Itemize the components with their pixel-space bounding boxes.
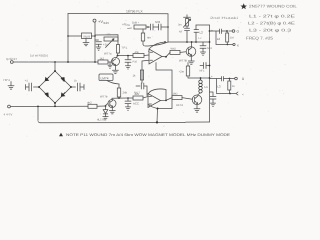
resistor R TPL vertical: [116, 45, 119, 53]
svg-text:NOTE P11 WOUND 7m A/4 6km WOW: NOTE P11 WOUND 7m A/4 6km WOW MAGNET MOD…: [66, 133, 231, 137]
svg-text:18796 FLX: 18796 FLX: [126, 9, 143, 13]
ground Q2 emitter: [109, 107, 115, 114]
svg-text:45k: 45k: [135, 51, 140, 54]
svg-text:2N5777 WOUND COIL: 2N5777 WOUND COIL: [249, 5, 297, 9]
svg-text:P10: P10: [133, 61, 138, 64]
svg-text:WT7b: WT7b: [100, 95, 108, 99]
wire bridge bottom: [54, 103, 56, 106]
capacitor C chain 1: [151, 24, 159, 30]
transistor Q3: [186, 47, 196, 57]
node rail dots: [54, 61, 96, 63]
svg-text:a: a: [211, 29, 213, 33]
svg-text:1k: 1k: [232, 85, 235, 88]
svg-text:HP o: HP o: [4, 78, 11, 82]
svg-text:ACC: ACC: [133, 102, 139, 106]
svg-text:L1: L1: [205, 85, 209, 89]
svg-text:UF74: UF74: [176, 103, 183, 107]
terminal input bottom: [8, 105, 11, 108]
wire lower rail: [10, 105, 88, 107]
resistor R 6k8: [88, 104, 97, 108]
wire top rail: [68, 13, 168, 15]
diode D2: [45, 93, 48, 97]
svg-text:4 4-7V: 4 4-7V: [4, 113, 13, 117]
resistor R rail 1k2: [98, 60, 108, 64]
capacitor C near Q4: [210, 92, 217, 106]
svg-text:L3: L3: [217, 85, 221, 89]
resistor R op1 input: [133, 54, 144, 58]
svg-text:N33: N33: [207, 47, 212, 50]
svg-text:1kB +: 1kB +: [132, 21, 140, 25]
svg-text:+2: +2: [25, 80, 29, 83]
svg-text:L3 - 20t φ 0.3: L3 - 20t φ 0.3: [249, 27, 292, 32]
wire loop stage coupling: [156, 63, 172, 123]
svg-text:24k: 24k: [123, 91, 128, 95]
svg-text:+2m: +2m: [179, 70, 185, 74]
terminal K upper: [228, 44, 233, 46]
wire vertical x168: [167, 14, 169, 42]
ground regulator: [83, 39, 89, 46]
note star header: [240, 3, 247, 9]
capacitor C out upper: [220, 29, 222, 34]
svg-text:1M: 1M: [230, 37, 234, 40]
svg-text:L2: L2: [217, 37, 221, 41]
capacitor C at Q2 collector: [125, 98, 131, 110]
svg-text:T.P.L: T.P.L: [121, 46, 127, 50]
ground Q4 emitter: [194, 105, 200, 113]
svg-text:4m: 4m: [147, 36, 152, 40]
capacitor C on rail mid: [200, 63, 210, 69]
svg-text:1k: 1k: [74, 80, 77, 83]
capacitor C fixed below trimmer: [185, 26, 190, 42]
svg-text:K: K: [237, 43, 239, 47]
label box LM741: [99, 74, 113, 81]
capacitor C 1u at regulator: [95, 40, 102, 50]
ground Q1 emitter: [112, 65, 118, 73]
ground Q3 emitter: [188, 56, 194, 65]
capacitor C out lower: [222, 77, 224, 82]
svg-text:2nd Hutaki: 2nd Hutaki: [210, 16, 239, 20]
svg-text:+V/12V: +V/12V: [98, 19, 109, 25]
svg-text:WT7a: WT7a: [104, 52, 112, 56]
wire rail to Q1 base: [108, 61, 111, 63]
bridge rectifier diamond: [39, 71, 71, 103]
wire +V drop: [94, 22, 96, 62]
resistor R 42k: [133, 96, 143, 100]
svg-text:L2: L2: [200, 31, 204, 35]
capacitor C chain 2 N33: [159, 24, 169, 30]
resistor R out upper: [226, 33, 229, 42]
terminal +V 12V: [93, 19, 96, 22]
wire op2 feedback: [148, 89, 166, 100]
wire op2 plus to ground rail: [148, 104, 157, 108]
wire right rail: [209, 25, 211, 122]
svg-text:+V/5V: +V/5V: [122, 23, 130, 28]
resistor R 2k2 vertical: [140, 70, 143, 80]
svg-text:L1 - 27t φ 0.2E: L1 - 27t φ 0.2E: [249, 13, 296, 18]
wire mid supply rail: [13, 61, 98, 63]
svg-text:LM74: LM74: [101, 76, 109, 80]
svg-text:WT7B: WT7B: [179, 59, 187, 63]
diode D1: [45, 77, 49, 81]
svg-text:G: G: [237, 30, 240, 34]
footnote marker: [59, 133, 63, 137]
svg-text:3m: 3m: [178, 24, 182, 27]
wire lower bottom out with arrow: [230, 92, 238, 95]
oscillator tank box: [196, 24, 210, 26]
svg-text:+: +: [211, 75, 213, 79]
svg-text:FREQ 7. #25: FREQ 7. #25: [246, 35, 274, 40]
svg-text:+1u: +1u: [103, 43, 108, 47]
wire lower rail cont: [97, 105, 106, 107]
svg-text:1k: 1k: [133, 74, 137, 78]
zener D5: [105, 105, 107, 107]
capacitor C coupling lower: [136, 83, 147, 96]
wire 5V feed to pot: [95, 35, 118, 45]
ground base stub: [108, 62, 112, 68]
output network upper: [209, 30, 211, 32]
resistor R op2 out: [172, 96, 182, 100]
svg-text:1M2: 1M2: [173, 92, 179, 95]
svg-text:42k: 42k: [135, 92, 140, 96]
transistor Q4: [192, 95, 202, 105]
trimmer capacitor: [184, 15, 191, 19]
svg-text:47k: 47k: [106, 32, 111, 36]
svg-text:<: <: [242, 92, 244, 96]
op-amp U1: [149, 49, 162, 64]
resistor R out lower: [228, 81, 231, 90]
resistor R decouple: [134, 25, 146, 29]
wire bottom ground rail: [40, 121, 210, 124]
capacitor C bridge right: [71, 83, 84, 91]
svg-text:å: å: [242, 77, 244, 81]
terminal input top: [10, 61, 13, 64]
diode D3: [61, 93, 65, 97]
svg-text:78L05: 78L05: [83, 35, 91, 38]
resistor R op1 out: [170, 50, 180, 54]
wire curve to node: [143, 41, 168, 46]
svg-text:4L17B: 4L17B: [97, 117, 105, 121]
scan speckle noise: [7, 2, 296, 140]
potentiometer RV 47k: [104, 37, 118, 41]
wire op1 plus input path: [142, 60, 149, 83]
wire left down corner: [38, 107, 40, 123]
terminal a lower: [230, 78, 235, 80]
op-amp U2: [148, 94, 161, 108]
svg-text:1-2: 1-2: [198, 37, 202, 40]
wire op1 feedback: [149, 42, 165, 52]
resistor R 2k4 vertical: [117, 88, 120, 97]
wire op1 output: [162, 52, 170, 56]
svg-text:N33: N33: [155, 20, 161, 24]
inductor L2 lower: [199, 78, 202, 93]
svg-text:Ip 92-97: Ip 92-97: [6, 57, 17, 61]
transistor Q1: [112, 58, 120, 66]
wire stage2 node: [112, 98, 133, 100]
regulator U 78L05: [68, 35, 82, 37]
diode D4: [61, 78, 64, 82]
svg-text:W42: W42: [171, 47, 177, 50]
potentiometer wiper arrow: [106, 39, 115, 48]
svg-text:L2 - 27t(B) φ 0.4E: L2 - 27t(B) φ 0.4E: [248, 20, 295, 25]
transistor Q2: [108, 100, 116, 108]
svg-text:1k2: 1k2: [100, 57, 105, 61]
terminal G: [229, 30, 233, 32]
wire bridge top: [54, 62, 56, 71]
resistor R feed lower osc: [187, 63, 189, 67]
svg-text:NF1: NF1: [200, 70, 205, 73]
inductor L1: [194, 30, 199, 33]
svg-text:ob2: ob2: [87, 100, 92, 104]
wire oscillator node y42: [168, 41, 210, 43]
wire left drop from top rail: [67, 14, 69, 63]
capacitor C tank: [200, 42, 206, 55]
capacitor C bridge left: [26, 83, 40, 91]
capacitor C at Q1 collector: [125, 56, 131, 69]
resistor R 4k7 drop: [142, 29, 144, 33]
svg-text:1ul wt RB(1k): 1ul wt RB(1k): [30, 54, 48, 58]
